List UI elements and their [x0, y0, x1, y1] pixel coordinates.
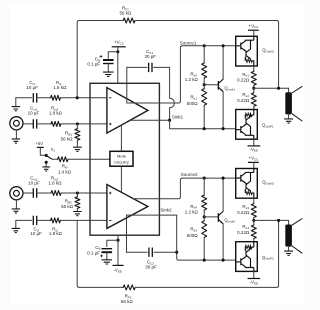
wire RB2 top lead — [76, 193, 78, 197]
capacitor CB2 — [102, 248, 113, 250]
wire RB1 bottom lead — [76, 140, 78, 147]
wire feedback ch1 left — [77, 21, 123, 98]
node bias ch2 — [76, 191, 79, 194]
wire row3 to op-amp — [61, 192, 107, 194]
wire Rb4 bottom lead — [203, 210, 205, 217]
svg-text:0.1 µF: 0.1 µF — [87, 251, 100, 256]
svg-text:Sink1: Sink1 — [172, 114, 184, 119]
wire row1 to op-amp — [60, 97, 107, 99]
wire RM to mute circuitry — [68, 158, 110, 160]
svg-text:56 kΩ: 56 kΩ — [119, 11, 132, 16]
svg-text:1.8 kΩ: 1.8 kΩ — [53, 85, 67, 90]
node Qmult2 emitter bottom — [222, 259, 225, 262]
svg-text:1.8 kΩ: 1.8 kΩ — [49, 110, 63, 115]
wire CC1 right — [154, 66, 170, 68]
node Rb1 bottom — [203, 127, 206, 130]
resistor Ri2 — [51, 218, 61, 223]
wire Qmult1 emitter — [222, 92, 224, 129]
wire row3 b — [37, 192, 51, 194]
wire row2 to op-amp — [61, 123, 107, 125]
svg-text:500Ω: 500Ω — [187, 101, 199, 106]
svg-text:30 pF: 30 pF — [144, 54, 156, 59]
capacitor Ci1 — [33, 93, 36, 102]
wire VCC to QoutN1 — [253, 30, 255, 36]
power VEE rail2 — [248, 278, 261, 280]
capacitor CC1 — [149, 63, 152, 72]
ground RB1 — [73, 147, 82, 151]
power VCC rail1 — [248, 29, 259, 31]
wire feedback ch2 right — [135, 220, 278, 287]
wire CB1 lead — [108, 52, 118, 59]
mute circuitry block — [110, 151, 133, 166]
wire output to Re4 — [253, 220, 255, 225]
capacitor Ci2 — [33, 216, 36, 225]
wire Re4 to QoutP2 — [253, 239, 255, 242]
wire CC1 right lead with hop — [170, 67, 175, 120]
wire Rb2 top lead — [203, 46, 205, 63]
wire QoutP1 to VEE — [253, 139, 255, 146]
capacitor Cin1 — [33, 119, 36, 128]
wire VCC to IC — [117, 47, 119, 84]
svg-text:1.8 kΩ: 1.8 kΩ — [48, 181, 62, 186]
svg-text:500Ω: 500Ω — [187, 233, 199, 238]
capacitor Cin2 — [33, 188, 36, 197]
wire RB2 bottom lead — [76, 208, 78, 211]
svg-text:Mute: Mute — [117, 154, 127, 159]
svg-text:Circuitry: Circuitry — [114, 159, 129, 164]
wire speaker1 ground lead — [288, 114, 290, 118]
svg-text:10 µF: 10 µF — [28, 181, 40, 186]
svg-text:10 µF: 10 µF — [26, 85, 38, 90]
ground speaker1 — [284, 119, 293, 123]
op-amp U2 — [107, 185, 148, 229]
transistor QOutP2 — [236, 242, 258, 272]
svg-text:30 pF: 30 pF — [145, 264, 157, 269]
wire output ch2 — [254, 219, 289, 221]
power +5V bar — [37, 146, 44, 148]
transistor QOutP1 — [236, 110, 258, 140]
wire sink1 bus — [170, 120, 236, 129]
node CC1/sink1 — [168, 119, 171, 122]
resistor Rb1 — [202, 89, 207, 106]
svg-text:Source1: Source1 — [180, 40, 197, 45]
wire switch to RM — [52, 158, 57, 160]
node feedback tap ch1 — [277, 87, 280, 90]
wire row1 left — [16, 97, 32, 99]
svg-text:10 µF: 10 µF — [30, 231, 42, 236]
wire Re2 to QoutP1 — [253, 106, 255, 109]
resistor Re3 — [251, 204, 256, 218]
wire Qmult1 collector — [222, 46, 224, 79]
node Qmult1 collector top — [222, 44, 225, 47]
node VCC bypass — [116, 50, 119, 53]
svg-text:0.1 µF: 0.1 µF — [87, 61, 100, 66]
input jack ch2 — [10, 187, 23, 200]
svg-text:56 kΩ: 56 kΩ — [121, 299, 134, 304]
svg-text:10 µF: 10 µF — [28, 110, 40, 115]
resistor Ri1 — [51, 95, 61, 100]
power VEE op2 — [113, 264, 124, 266]
wire to speaker2 — [288, 220, 290, 224]
wire output to Re2 — [253, 88, 255, 93]
wire CB2 lead — [107, 240, 118, 246]
wire VCC to QoutN2 — [253, 162, 255, 168]
wire speaker2 ground lead — [288, 247, 290, 251]
resistor RM — [58, 157, 68, 162]
wire Rb2 bottom lead — [203, 78, 205, 85]
speaker ch1 — [285, 92, 292, 114]
wire CB1 to ground — [107, 64, 109, 72]
power VEE rail1 — [248, 145, 261, 147]
wire sink2 from U2 — [127, 214, 177, 216]
ground switch — [42, 167, 50, 171]
resistor Rb4 — [202, 195, 207, 210]
node Rb4 top — [203, 177, 206, 180]
wire Rb3 top lead — [203, 217, 205, 221]
resistor Re1 — [251, 71, 256, 85]
wire feedback ch1 right — [135, 21, 279, 89]
node CC2/sink2 — [175, 251, 178, 254]
wire source1 — [127, 46, 236, 103]
node VEE bypass — [116, 239, 119, 242]
wire output ch1 — [254, 87, 289, 89]
svg-text:1.2 kΩ: 1.2 kΩ — [185, 77, 199, 82]
svg-text:0.22Ω: 0.22Ω — [237, 78, 250, 83]
ground RB2 — [73, 212, 82, 216]
input jack ch1 — [10, 117, 23, 130]
wire Rb1 top lead — [203, 85, 205, 89]
wire row2 b — [37, 123, 51, 125]
wire row1 ground lead — [15, 98, 17, 106]
wire row2 a — [23, 123, 33, 125]
node Qmult2 collector top — [222, 177, 225, 180]
wire row4 to op-amp — [60, 219, 107, 221]
ground row4 — [12, 228, 20, 232]
wire switch ground lead — [45, 163, 47, 166]
capacitor CB1 — [103, 59, 114, 61]
svg-text:1.4 kΩ: 1.4 kΩ — [58, 169, 72, 174]
Qmult1 collector/emitter diagonals — [218, 79, 223, 91]
wire QoutN1 emitter to Re1 — [253, 66, 255, 71]
wire Qmult1 base — [204, 84, 218, 86]
svg-text:56 kΩ: 56 kΩ — [61, 204, 74, 209]
svg-text:Sink2: Sink2 — [160, 208, 172, 213]
ground speaker2 — [284, 251, 293, 255]
wire IC to VEE — [117, 235, 119, 265]
transistor QOutN2 — [236, 169, 258, 199]
wire CB2 to ground — [106, 252, 108, 259]
capacitor CC2 — [149, 248, 152, 257]
wire +5V to switch — [40, 147, 45, 155]
wire mute to U1 — [120, 126, 122, 151]
wire QoutN2 emitter to Re3 — [253, 198, 255, 203]
wire row4 mid — [37, 219, 51, 221]
wire Qmult2 base — [204, 216, 218, 218]
node Rb2 top — [203, 44, 206, 47]
wire CC1 left lead down — [126, 67, 128, 103]
ground jack2 — [12, 209, 20, 213]
wire CC2 right — [154, 251, 177, 253]
resistor RF1 — [123, 18, 135, 23]
resistor Re2 — [251, 93, 256, 107]
switch contact upper — [45, 154, 48, 157]
resistor RB1 — [75, 129, 80, 141]
node Qmult2 base — [203, 215, 206, 218]
wire CC1 left — [127, 66, 147, 68]
resistor RB2 — [75, 197, 80, 209]
resistor Rb3 — [202, 221, 207, 238]
wire Qmult2 emitter — [222, 224, 224, 260]
node Qmult1 base — [203, 83, 206, 86]
wire jack1 ground lead — [15, 130, 17, 138]
svg-text:0.22Ω: 0.22Ω — [237, 98, 250, 103]
wire row1 mid — [37, 97, 51, 99]
wire Re1 to output — [253, 85, 255, 88]
wire CC2 left lead — [126, 215, 128, 252]
svg-text:0.22Ω: 0.22Ω — [237, 210, 250, 215]
svg-text:1.8 kΩ: 1.8 kΩ — [49, 231, 63, 236]
resistor Rin2 — [51, 191, 61, 196]
wire row4 left — [16, 219, 32, 221]
svg-text:1.2 kΩ: 1.2 kΩ — [185, 209, 199, 214]
wire source2 — [134, 178, 236, 199]
node bias ch1 — [76, 122, 79, 125]
wire sink1 from U1 — [130, 119, 169, 121]
ground row1 — [12, 107, 20, 111]
svg-text:56 kΩ: 56 kΩ — [61, 136, 74, 141]
wire sink2 bus — [177, 215, 236, 260]
switch contact lower — [45, 161, 48, 164]
power VCC op1 — [112, 46, 126, 48]
node feedback tap ch2 — [277, 219, 280, 222]
wire feedback ch2 left — [77, 220, 123, 287]
wire Rb3 bottom lead — [203, 238, 205, 261]
wire mute to U2 — [120, 166, 122, 192]
wire RB1 top lead — [76, 124, 78, 129]
svg-text:Source2: Source2 — [181, 172, 198, 177]
wire QoutP2 to VEE — [253, 271, 255, 278]
resistor RF2 — [123, 285, 135, 290]
wire Rb1 bottom lead — [203, 105, 205, 128]
wire row4 ground lead — [15, 220, 17, 228]
node feedback/inverting input ch1 — [76, 96, 79, 99]
op-amp U1 — [107, 88, 148, 134]
wire Rb4 top lead — [203, 178, 205, 195]
wire CC2 left — [127, 251, 148, 253]
switch S1 lever — [47, 156, 52, 159]
ground CB1 — [103, 72, 114, 76]
IC package outline — [90, 83, 159, 235]
wire jack2 ground lead — [15, 200, 17, 208]
wire Qmult2 collector — [222, 178, 224, 211]
node Qmult1 emitter bottom — [222, 127, 225, 130]
node Rb3 bottom — [203, 259, 206, 262]
power VCC rail2 — [248, 161, 259, 163]
resistor Rin1 — [51, 121, 61, 126]
node output ch2 — [252, 219, 255, 222]
transistor QOutN1 — [236, 36, 258, 66]
ground jack1 — [12, 139, 20, 143]
ground CB2 — [102, 260, 113, 264]
wire Re3 to output — [253, 218, 255, 221]
Qmult2 collector/emitter diagonals — [218, 211, 223, 223]
resistor Rb2 — [202, 63, 207, 78]
svg-text:0.22Ω: 0.22Ω — [237, 230, 250, 235]
speaker ch2 — [285, 225, 292, 247]
wire row3 a — [23, 192, 33, 194]
node output ch1 — [252, 87, 255, 90]
wire to speaker1 — [288, 88, 290, 92]
svg-text:+5V: +5V — [36, 141, 44, 146]
resistor Re4 — [251, 225, 256, 239]
